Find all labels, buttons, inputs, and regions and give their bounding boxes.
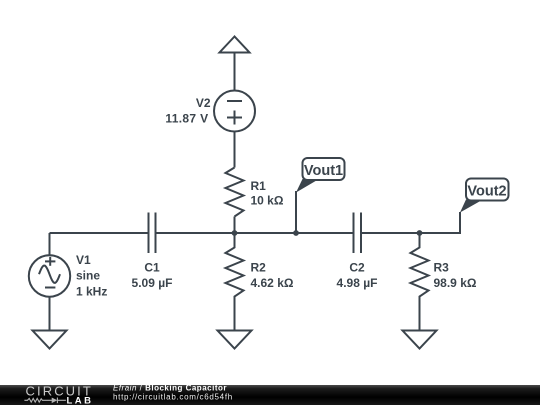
svg-text:R1: R1 bbox=[251, 179, 267, 193]
flag Vout2 bbox=[460, 179, 509, 213]
svg-text:V2: V2 bbox=[196, 96, 211, 110]
wire Vout1 to bus bbox=[295, 191, 297, 233]
voltage source V2 bbox=[214, 91, 255, 132]
svg-text:http://circuitlab.com/c6d54fh: http://circuitlab.com/c6d54fh bbox=[113, 393, 233, 402]
svg-text:10 kΩ: 10 kΩ bbox=[251, 194, 284, 208]
C1 label bbox=[132, 261, 173, 291]
svg-text:sine: sine bbox=[76, 269, 100, 283]
capacitor C2 bbox=[354, 213, 362, 254]
node junction A (R1/R2) bbox=[232, 230, 238, 236]
flag Vout1 bbox=[296, 158, 345, 193]
ground G1 (under V1) bbox=[33, 331, 67, 349]
svg-text:C2: C2 bbox=[349, 261, 365, 275]
C2 label bbox=[337, 261, 378, 291]
V2 label bbox=[165, 96, 210, 126]
svg-text:Vout2: Vout2 bbox=[467, 184, 506, 200]
node junction B (Vout1) bbox=[293, 230, 299, 236]
svg-text:5.09 µF: 5.09 µF bbox=[132, 276, 173, 290]
resistor R3 bbox=[411, 233, 429, 331]
wire bus left segment bbox=[50, 232, 149, 234]
svg-text:4.62 kΩ: 4.62 kΩ bbox=[251, 276, 294, 290]
footer bar bbox=[0, 385, 540, 405]
capacitor C1 bbox=[149, 213, 156, 254]
svg-text:Vout1: Vout1 bbox=[304, 163, 343, 179]
logo diode bbox=[52, 398, 58, 404]
svg-text:R2: R2 bbox=[251, 261, 267, 275]
wire R1 to bus bbox=[234, 217, 236, 234]
wire bus right segment bbox=[361, 232, 460, 234]
svg-text:C1: C1 bbox=[144, 261, 160, 275]
svg-text:98.9 kΩ: 98.9 kΩ bbox=[434, 276, 477, 290]
R3 label bbox=[434, 261, 477, 291]
resistor R1 bbox=[226, 168, 244, 217]
svg-text:Efrain / Blocking Capacitor: Efrain / Blocking Capacitor bbox=[113, 383, 227, 392]
wire bus middle segment bbox=[156, 232, 354, 234]
svg-text:V1: V1 bbox=[76, 253, 91, 267]
voltage source V1 bbox=[29, 233, 70, 331]
logo waveform icon bbox=[24, 398, 66, 404]
svg-text:1 kHz: 1 kHz bbox=[76, 285, 107, 299]
power flag VCC bbox=[220, 37, 250, 91]
V1 label bbox=[76, 253, 107, 299]
node junction C (R3/Vout2) bbox=[417, 230, 423, 236]
ground G3 (under R3) bbox=[403, 331, 437, 349]
svg-text:LAB: LAB bbox=[67, 396, 94, 405]
wire Vout2 to node C bbox=[420, 212, 461, 233]
R2 label bbox=[251, 261, 294, 291]
wire V2 to R1 bbox=[234, 132, 236, 168]
svg-text:4.98 µF: 4.98 µF bbox=[337, 276, 378, 290]
ground G2 (under R2) bbox=[218, 331, 252, 349]
R1 label bbox=[251, 179, 284, 208]
svg-text:R3: R3 bbox=[434, 261, 450, 275]
svg-text:11.87 V: 11.87 V bbox=[165, 112, 208, 126]
resistor R2 bbox=[226, 233, 244, 331]
